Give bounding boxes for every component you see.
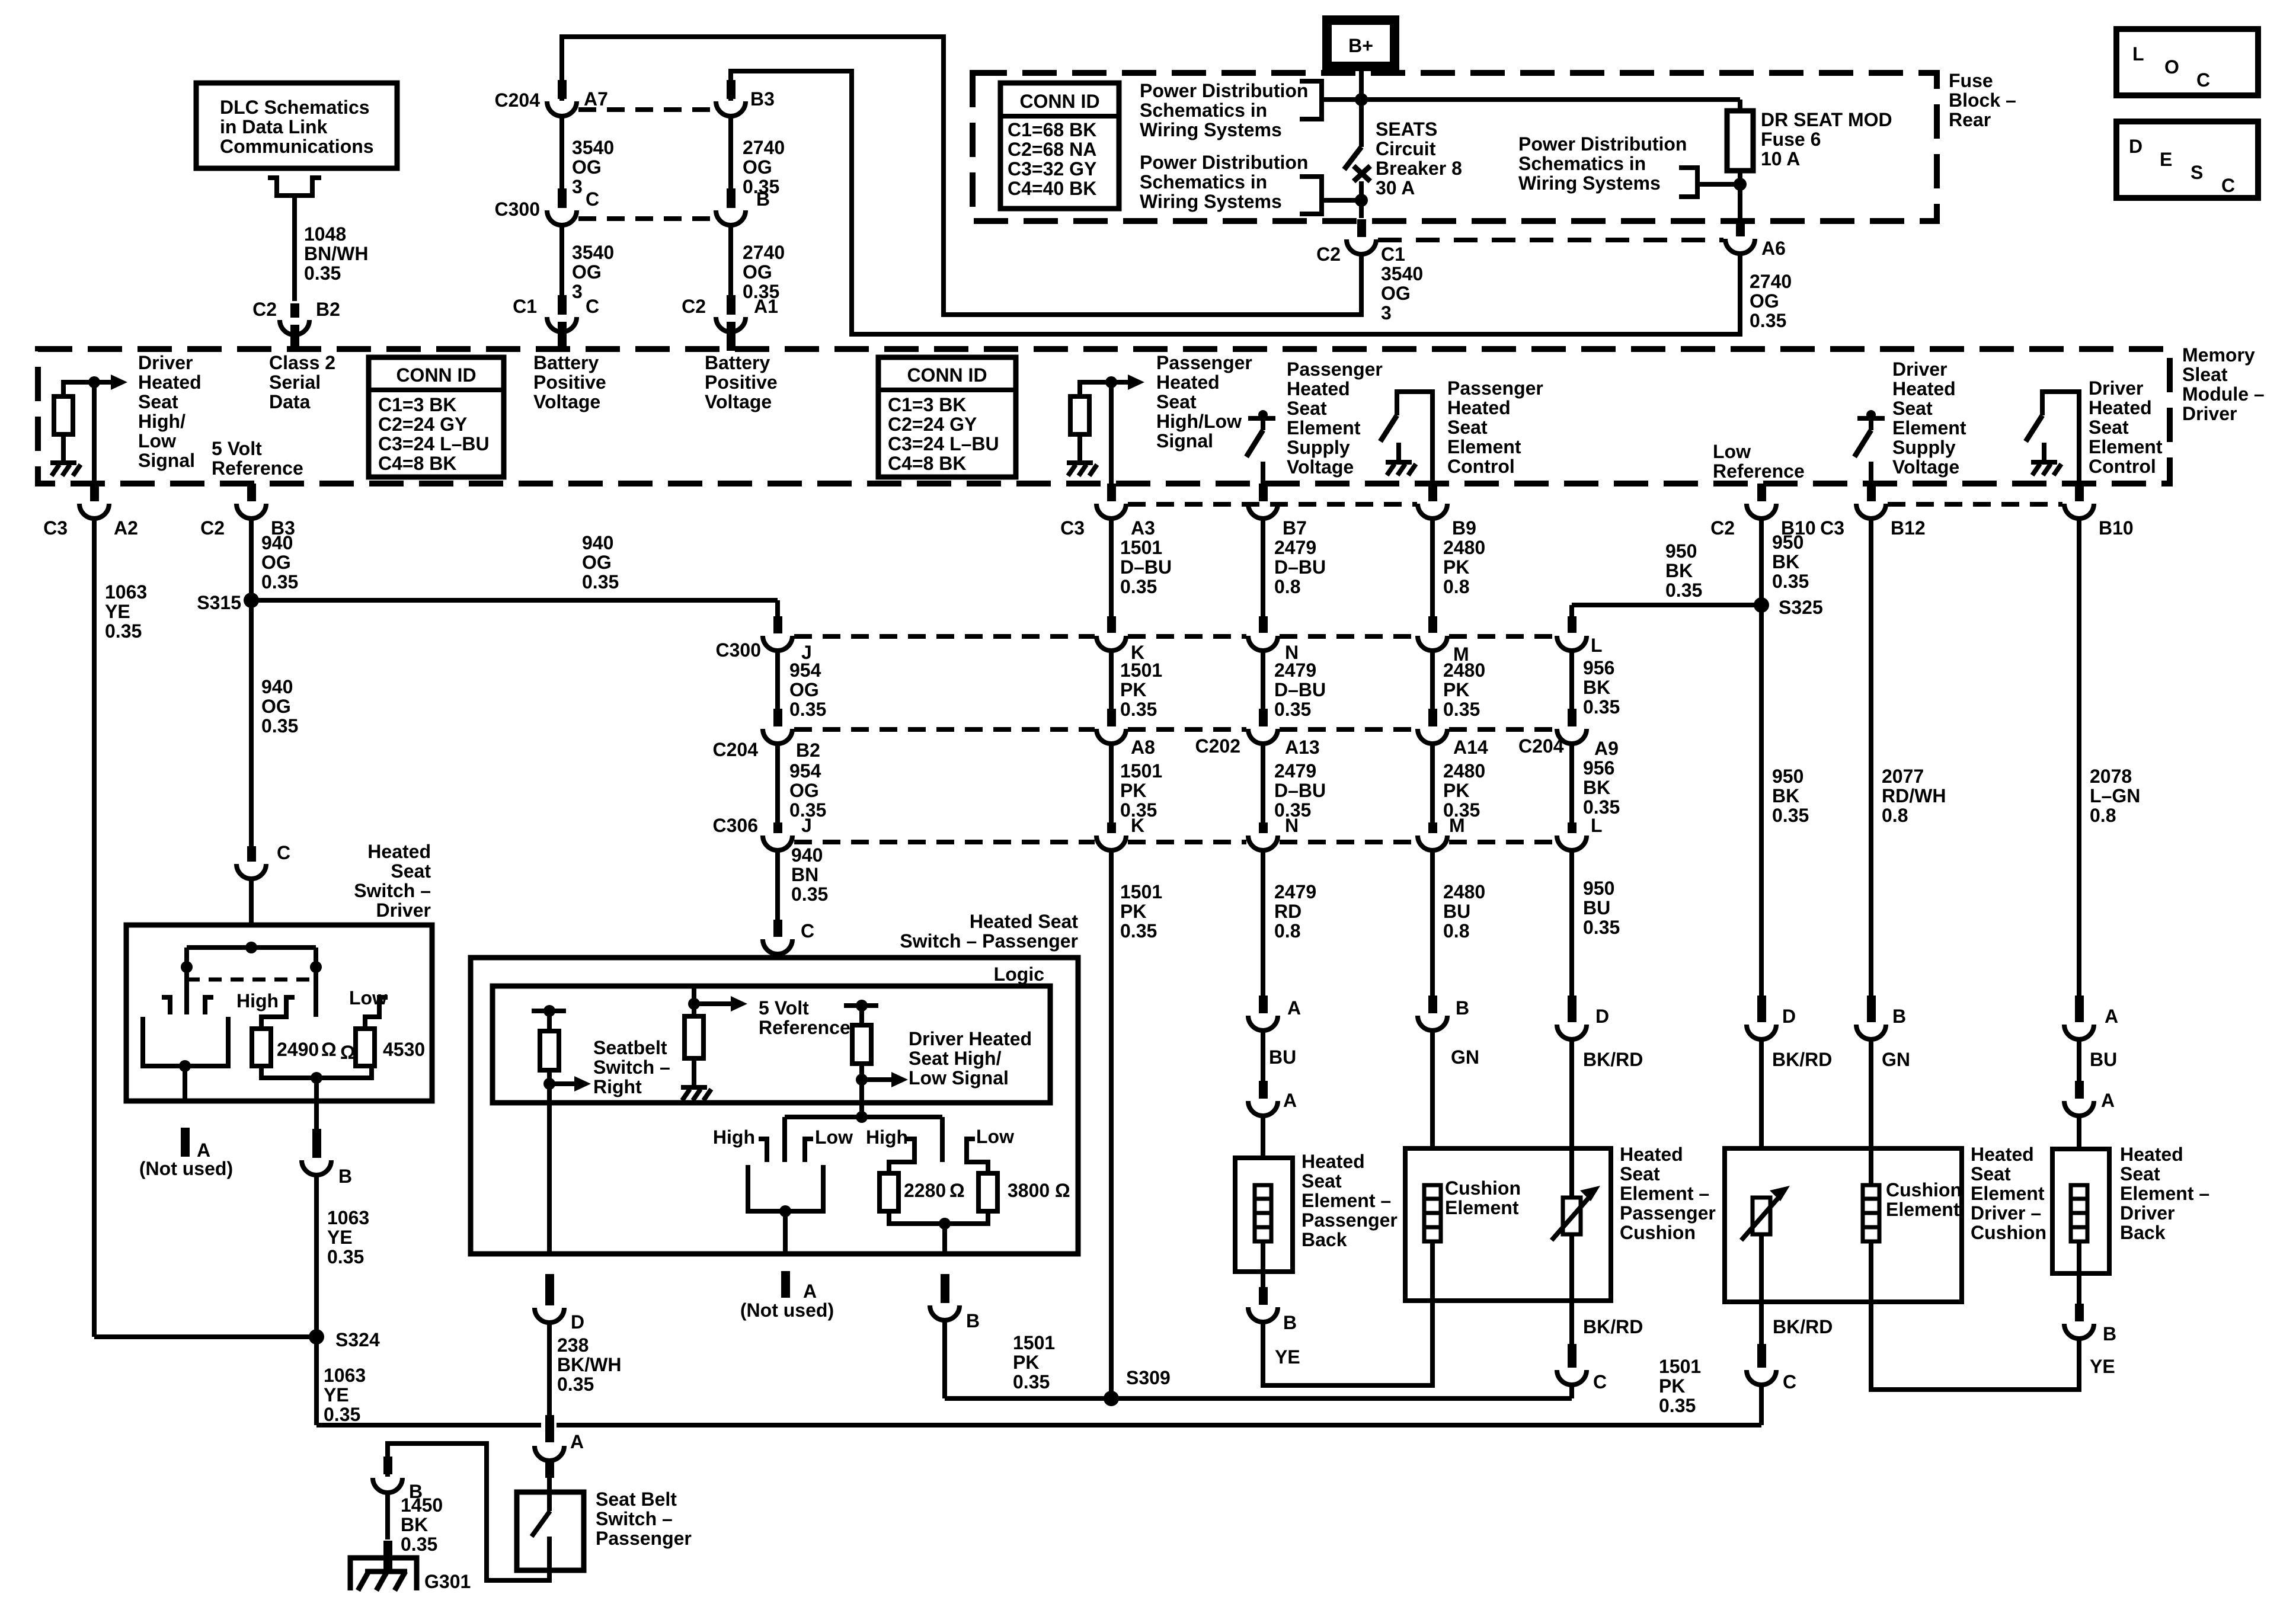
connector C306 K (1096, 836, 1126, 850)
svg-text:Reference: Reference (1713, 460, 1805, 482)
connector B10 driver (2064, 504, 2094, 518)
connector B driver switch (312, 1142, 321, 1158)
svg-text:1501: 1501 (1120, 881, 1162, 902)
stub seat belt A male (545, 1415, 554, 1442)
svg-text:BU: BU (2090, 1049, 2117, 1070)
connector C204 A14 (1418, 729, 1447, 744)
arrow passenger hl signal (1111, 380, 1129, 385)
wire 2479 RD (1261, 852, 1265, 996)
svg-text:0.35: 0.35 (1659, 1395, 1696, 1416)
stub B seat belt (383, 1457, 392, 1474)
junction drv hl signal (856, 1074, 868, 1086)
svg-text:1501: 1501 (1659, 1356, 1701, 1377)
wire seatbelt resistor down (547, 1070, 552, 1084)
svg-text:Cushion: Cushion (1886, 1179, 1962, 1201)
svg-text:C3: C3 (1060, 517, 1085, 539)
svg-text:Switch – Passenger: Switch – Passenger (900, 930, 1078, 952)
connector A driver back lower (2075, 1081, 2084, 1099)
wire B+ to circuit breaker (1359, 66, 1364, 147)
wire left bus to A (183, 1066, 187, 1101)
connector C204 B3 (727, 80, 736, 99)
ground stem drv control (2042, 443, 2046, 462)
svg-text:Reference: Reference (759, 1017, 850, 1038)
dotted connector row B12-B10 (1888, 502, 2062, 507)
svg-text:2740: 2740 (1750, 271, 1792, 292)
junction pass left bus tap (779, 1205, 791, 1217)
svg-text:A: A (1287, 997, 1301, 1019)
svg-text:1501: 1501 (1120, 537, 1162, 558)
svg-text:BU: BU (1583, 897, 1610, 918)
svg-text:0.35: 0.35 (1772, 805, 1809, 826)
svg-text:Ω: Ω (321, 1039, 337, 1060)
svg-text:PK: PK (1013, 1352, 1039, 1373)
stub C300 K (1107, 616, 1116, 633)
svg-text:S309: S309 (1126, 1367, 1171, 1388)
wire resistor to junction pass (1080, 382, 1111, 396)
connector C3 B12 (1856, 504, 1886, 518)
svg-text:DR SEAT MOD: DR SEAT MOD (1761, 109, 1892, 130)
switch dot pass supply (1258, 410, 1268, 420)
element passenger back (1255, 1185, 1271, 1241)
resistor passenger hl (1070, 396, 1089, 434)
junction pass resistor bus tap (939, 1218, 951, 1230)
svg-text:C3: C3 (1820, 517, 1844, 539)
switch dot drv supply (1866, 410, 1876, 420)
circuit breaker SEATS blade (1344, 147, 1361, 169)
wire into logic 5v (692, 986, 696, 1004)
driver switch rail (187, 945, 316, 950)
wire pass resistor bus to B (942, 1224, 947, 1254)
wire 3540 OG (559, 116, 564, 190)
wire C to S324 line (1759, 1384, 1764, 1425)
svg-text:L: L (1591, 815, 1603, 836)
svg-text:1063: 1063 (327, 1207, 369, 1228)
element driver cushion (1863, 1185, 1879, 1241)
svg-text:Driver Heated: Driver Heated (909, 1028, 1032, 1049)
splice S315 (244, 593, 259, 608)
svg-text:2479: 2479 (1274, 881, 1316, 902)
ground G301 symbol (365, 1569, 407, 1574)
resistor 4530 (356, 1029, 375, 1066)
svg-text:BK: BK (1583, 777, 1610, 798)
svg-text:Driver: Driver (376, 900, 431, 921)
svg-text:Heated: Heated (138, 372, 202, 393)
svg-text:4530: 4530 (383, 1039, 425, 1060)
dashed line C204 (1128, 727, 1246, 732)
svg-text:in Data Link: in Data Link (220, 116, 328, 137)
wire element to B (1261, 1241, 1265, 1287)
svg-text:Wiring Systems: Wiring Systems (1140, 191, 1282, 212)
wire 1063 YE (S324 line left part) (316, 1423, 541, 1427)
svg-text:Circuit: Circuit (1376, 138, 1436, 159)
svg-text:C306: C306 (713, 815, 759, 836)
wire down to C300 L (1569, 605, 1574, 619)
junction right pole (310, 961, 322, 973)
wire 2740 OG (728, 116, 733, 190)
junction passenger hl (1105, 376, 1117, 388)
wire 1048 BN/WH from DLC (292, 196, 297, 301)
svg-text:D: D (2129, 136, 2142, 157)
wire resistor to junction (63, 382, 94, 396)
svg-text:1048: 1048 (304, 223, 346, 245)
connector B seat belt (373, 1478, 402, 1493)
connector C300 K (1096, 636, 1126, 651)
heated seat switch passenger box (471, 958, 1078, 1254)
svg-text:Seat: Seat (2120, 1163, 2160, 1185)
svg-text:3540: 3540 (572, 242, 614, 263)
svg-text:D: D (1782, 1006, 1796, 1027)
svg-text:0.35: 0.35 (1583, 917, 1620, 938)
junction driver hl (88, 376, 100, 388)
svg-text:A: A (1283, 1090, 1297, 1111)
wire 1063 YE (A2 to S324 corner) (92, 518, 97, 1337)
connector B passenger cushion (1428, 996, 1437, 1013)
wire 1063 YE (B to S324) (314, 1174, 319, 1337)
wire 950 BK (B10 to S325) (1759, 518, 1764, 605)
passenger blade right (940, 1117, 945, 1162)
svg-text:Back: Back (1302, 1229, 1347, 1250)
svg-text:YE: YE (105, 601, 130, 622)
svg-text:C202: C202 (1195, 735, 1241, 757)
svg-text:Low: Low (1713, 441, 1751, 462)
seatbelt resistor top bar (532, 1009, 566, 1013)
module CONN ID table 2 (878, 357, 1016, 477)
svg-text:Schematics in: Schematics in (1518, 153, 1646, 174)
svg-text:High: High (713, 1126, 755, 1148)
wire 2480 BU (1430, 852, 1435, 996)
svg-text:0.8: 0.8 (1274, 576, 1300, 597)
svg-text:GN: GN (1882, 1049, 1910, 1070)
svg-text:30 A: 30 A (1376, 177, 1415, 199)
connector B10 driver stub (2075, 484, 2084, 501)
wire C into driver switch (249, 878, 254, 948)
connector C300 J (773, 616, 782, 633)
svg-text:S: S (2191, 162, 2203, 183)
heated seat element driver back box (2052, 1149, 2109, 1273)
wire driver cushion element to driver back B (1871, 1241, 2079, 1390)
resistor 3800 (978, 1173, 997, 1211)
switch stub drv supply (1869, 418, 1873, 430)
wire 1501 PK (S309 line) (945, 1396, 1572, 1401)
svg-text:Fuse: Fuse (1949, 70, 1993, 91)
svg-text:3800: 3800 (1008, 1180, 1050, 1201)
svg-text:Right: Right (593, 1076, 642, 1097)
passenger switch rail (785, 1115, 942, 1119)
stub C passenger (773, 955, 782, 972)
ground passenger hl (1067, 460, 1093, 465)
stub C204 A9 (1568, 709, 1576, 726)
connector B9 stub (1428, 484, 1437, 501)
svg-text:Module –: Module – (2182, 383, 2265, 405)
dashed line C300 (1280, 634, 1416, 639)
svg-text:D–BU: D–BU (1274, 556, 1326, 578)
fuse block CONN ID table (1000, 83, 1119, 209)
svg-text:OG: OG (572, 156, 602, 178)
wire 3540 OG (circuit breaker to C204 A7) (562, 37, 1361, 315)
splice S325 (1754, 597, 1769, 613)
ground G301 bracket (350, 1558, 417, 1590)
bracket 3 (1679, 168, 1697, 197)
resistor 5v ref (685, 1016, 703, 1058)
svg-text:RD: RD (1274, 901, 1302, 922)
wire drv hl resistor down (859, 1064, 864, 1080)
svg-text:C300: C300 (495, 199, 541, 220)
svg-text:YE: YE (2090, 1356, 2115, 1377)
svg-text:OG: OG (743, 261, 772, 283)
svg-text:Passenger: Passenger (596, 1528, 692, 1549)
connector C2 A1 (727, 295, 736, 315)
wire into passenger back element (1261, 1115, 1265, 1185)
svg-text:2740: 2740 (743, 137, 785, 158)
svg-text:0.35: 0.35 (791, 884, 828, 905)
svg-text:Switch –: Switch – (354, 880, 431, 901)
stub B driver switch (312, 1129, 321, 1145)
connector C2/B2 (290, 303, 299, 318)
svg-text:Control: Control (2089, 456, 2156, 477)
svg-text:C3=32 GY: C3=32 GY (1008, 158, 1096, 180)
junction left pole (181, 961, 193, 973)
svg-text:2480: 2480 (1443, 537, 1485, 558)
passenger switch pair2 contacts (889, 1139, 914, 1173)
svg-text:Passenger: Passenger (1287, 359, 1383, 380)
svg-text:A: A (2105, 1006, 2118, 1027)
wire to fuse top (1738, 100, 1742, 111)
passenger switch pair1 contacts (759, 1139, 767, 1162)
svg-text:B: B (338, 1166, 352, 1187)
svg-text:BK/RD: BK/RD (1583, 1049, 1643, 1070)
svg-text:B9: B9 (1452, 517, 1476, 539)
svg-text:OG: OG (261, 552, 291, 573)
arrow 5 volt reference (694, 1001, 732, 1006)
logic box (493, 986, 1050, 1103)
stub C306 K (1107, 822, 1116, 833)
dashed line C306 (1449, 840, 1555, 844)
svg-text:A: A (2101, 1090, 2115, 1111)
svg-text:Seat: Seat (391, 860, 431, 882)
wire junction to resistor 5v (692, 1004, 696, 1016)
svg-text:High: High (866, 1126, 908, 1148)
switch bar pass supply (1248, 416, 1275, 421)
junction breaker bottom (1355, 194, 1368, 207)
svg-text:A7: A7 (584, 88, 608, 110)
svg-text:0.35: 0.35 (1583, 696, 1620, 718)
wire 2078 L-GN (2077, 518, 2081, 996)
svg-text:950: 950 (1772, 766, 1803, 787)
svg-text:Seat: Seat (1447, 417, 1488, 438)
drv hl resistor top bar (844, 1003, 878, 1008)
svg-text:Signal: Signal (138, 450, 195, 471)
svg-text:BK: BK (1772, 551, 1799, 572)
svg-text:Schematics in: Schematics in (1140, 171, 1267, 193)
svg-text:Supply: Supply (1892, 437, 1956, 458)
stub B passenger switch (941, 1274, 949, 1292)
connector C2 B10 stub (1757, 484, 1766, 501)
svg-text:A1: A1 (754, 296, 778, 317)
junction driver switch input (245, 942, 257, 953)
svg-text:OG: OG (1750, 290, 1779, 312)
DLC connector bracket (268, 178, 321, 196)
svg-text:C1=3 BK: C1=3 BK (378, 394, 457, 415)
connector C2/C1 fuse block (1347, 239, 1376, 254)
svg-text:0.35: 0.35 (582, 571, 619, 593)
Memory Seat Module dashed outline (38, 349, 2170, 484)
dashed line C306 (1280, 840, 1416, 844)
svg-text:O: O (2164, 56, 2179, 78)
svg-text:Heated: Heated (1302, 1151, 1365, 1172)
connector C204 A13 (1248, 729, 1278, 744)
svg-text:Element –: Element – (1620, 1183, 1709, 1204)
element driver back (2071, 1185, 2087, 1241)
svg-text:BK: BK (1772, 785, 1799, 806)
stub D passenger switch (545, 1274, 554, 1292)
wire 3540 OG lower (559, 225, 564, 296)
svg-text:D–BU: D–BU (1274, 780, 1326, 801)
svg-text:Switch –: Switch – (593, 1057, 670, 1078)
svg-text:C2: C2 (682, 296, 706, 317)
svg-text:BU: BU (1443, 901, 1470, 922)
svg-text:Voltage: Voltage (533, 391, 600, 412)
wire between C204 and C306 (1430, 744, 1435, 822)
svg-text:2740: 2740 (743, 242, 785, 263)
connector C driver switch (247, 846, 256, 862)
connector C300 M (1418, 636, 1447, 651)
stub B drv back (2075, 1304, 2084, 1321)
svg-text:Supply: Supply (1287, 437, 1350, 458)
DESC box (2116, 121, 2258, 198)
svg-text:D–BU: D–BU (1120, 556, 1172, 578)
svg-text:Driver –: Driver – (1971, 1202, 2041, 1224)
svg-text:0.35: 0.35 (327, 1246, 364, 1267)
wire driver hl to A2 (92, 382, 97, 484)
wire cushion element down (1430, 1241, 1435, 1301)
svg-text:0.35: 0.35 (1750, 310, 1786, 331)
svg-text:D: D (1595, 1006, 1609, 1027)
svg-text:Communications: Communications (220, 136, 374, 157)
svg-text:0.35: 0.35 (1443, 699, 1480, 720)
connector C2 B3 stub (247, 484, 256, 501)
svg-text:C3: C3 (43, 517, 68, 539)
svg-text:BK: BK (1665, 560, 1693, 581)
dashed line C204 (794, 727, 1095, 732)
connector D driver thermistor (1757, 996, 1766, 1022)
svg-text:Element: Element (2089, 436, 2163, 457)
switch frame pass control (1397, 392, 1432, 484)
svg-text:PK: PK (1443, 780, 1469, 801)
svg-text:C: C (1783, 1371, 1796, 1393)
connector A6 (1725, 239, 1755, 254)
svg-text:Seat: Seat (1287, 398, 1327, 419)
heated seat element passenger cushion box (1405, 1148, 1611, 1301)
svg-text:L–GN: L–GN (2090, 785, 2140, 806)
svg-text:940: 940 (582, 532, 613, 553)
svg-text:C: C (586, 296, 599, 317)
svg-text:C1=68 BK: C1=68 BK (1008, 119, 1096, 140)
wire passenger hl to A3 (1109, 382, 1114, 484)
svg-text:1501: 1501 (1013, 1332, 1055, 1353)
element passenger cushion (1424, 1185, 1441, 1241)
dashed line C306 (1128, 840, 1246, 844)
svg-text:Seat High/: Seat High/ (909, 1048, 1002, 1069)
wire 950 BU (1569, 852, 1574, 996)
svg-text:A13: A13 (1285, 737, 1320, 758)
junction breaker top (1355, 93, 1368, 106)
svg-text:Ω: Ω (1055, 1180, 1070, 1201)
stub C306 M (1428, 822, 1437, 833)
svg-text:0.35: 0.35 (1120, 699, 1157, 720)
svg-text:Breaker 8: Breaker 8 (1376, 158, 1462, 179)
wire between C300 and C204 (1261, 651, 1265, 709)
svg-text:CONN ID: CONN ID (907, 364, 987, 386)
svg-text:Cushion: Cushion (1971, 1222, 2046, 1243)
svg-text:0.35: 0.35 (261, 715, 298, 737)
arrow driver hl signal (94, 380, 112, 385)
svg-text:BK/RD: BK/RD (1772, 1049, 1832, 1070)
svg-text:BN: BN (791, 864, 818, 885)
svg-text:2480: 2480 (1443, 760, 1485, 782)
wire between C300 and C204 (1569, 651, 1574, 709)
connector B driver cushion (1867, 996, 1876, 1022)
wire between C300 and C204 (1109, 651, 1114, 709)
CONN ID 2 divider (878, 388, 1016, 392)
connector B7 stub (1259, 484, 1268, 501)
svg-text:Heated: Heated (1892, 378, 1956, 399)
module CONN ID table 1 (369, 357, 504, 477)
svg-text:E: E (2160, 149, 2172, 170)
svg-text:Positive: Positive (705, 372, 778, 393)
svg-text:B: B (1283, 1312, 1297, 1333)
wire fuse bottom (1738, 171, 1742, 184)
stub C204 B2 (773, 709, 782, 726)
svg-text:C: C (801, 920, 814, 942)
DLC Schematics reference box (196, 83, 397, 168)
svg-text:Low: Low (976, 1126, 1014, 1147)
svg-text:0.35: 0.35 (261, 571, 298, 593)
stub C300 N (1259, 616, 1268, 633)
svg-text:PK: PK (1443, 679, 1469, 700)
wire pass supply to B7 (1261, 462, 1265, 484)
bracket 2 (1300, 177, 1322, 214)
svg-text:Memory: Memory (2182, 344, 2255, 366)
junction drv hl top (856, 1000, 868, 1012)
dashed line C300 (1449, 634, 1555, 639)
dotted connector row A3-B9 (1128, 502, 1417, 507)
svg-text:Heated: Heated (2089, 397, 2152, 418)
svg-text:0.35: 0.35 (1665, 580, 1702, 601)
svg-text:0.35: 0.35 (324, 1404, 360, 1425)
switch bar drv supply (1857, 416, 1885, 421)
wire 1501 PK (B to S309) (942, 1320, 947, 1398)
svg-text:Low Signal: Low Signal (909, 1067, 1009, 1089)
dashed line C300 (1128, 634, 1246, 639)
wire seat belt B path (388, 1443, 549, 1580)
svg-text:B: B (1456, 997, 1469, 1019)
svg-text:A: A (803, 1281, 817, 1302)
svg-text:B12: B12 (1891, 517, 1926, 539)
driver switch Low contact (365, 997, 388, 1029)
svg-text:S325: S325 (1779, 597, 1823, 618)
svg-text:PK: PK (1120, 901, 1146, 922)
svg-text:Seat: Seat (1971, 1163, 2011, 1185)
svg-text:0.8: 0.8 (1274, 920, 1300, 942)
connector D passenger switch (545, 1292, 554, 1305)
svg-text:S315: S315 (197, 592, 241, 613)
svg-text:BN/WH: BN/WH (304, 243, 368, 264)
wire resistor to ground pass (1077, 434, 1082, 462)
svg-text:Element: Element (1971, 1183, 2045, 1204)
svg-text:RD/WH: RD/WH (1882, 785, 1946, 806)
svg-text:Wiring Systems: Wiring Systems (1140, 119, 1282, 140)
connector C300 L (1557, 636, 1587, 651)
